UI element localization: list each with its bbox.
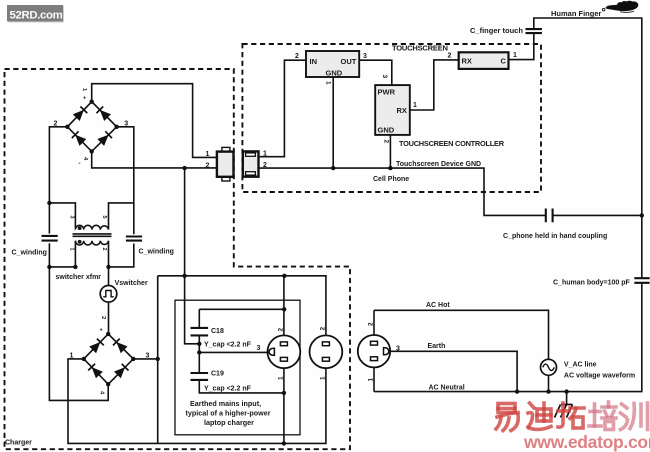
svg-text:2: 2 (100, 316, 106, 319)
svg-text:2: 2 (206, 162, 210, 169)
svg-text:switcher xfmr: switcher xfmr (56, 274, 102, 281)
svg-text:1: 1 (68, 248, 74, 251)
svg-text:+: + (100, 328, 103, 334)
svg-text:5: 5 (101, 216, 107, 219)
svg-text:C_human body=100 pF: C_human body=100 pF (553, 280, 631, 287)
svg-text:Touchscreen Device GND: Touchscreen Device GND (396, 161, 481, 168)
svg-text:-: - (113, 377, 115, 383)
svg-text:Cell Phone: Cell Phone (373, 176, 409, 183)
svg-text:GND: GND (378, 126, 395, 135)
svg-text:1: 1 (367, 378, 374, 382)
svg-text:Vswitcher: Vswitcher (115, 280, 148, 287)
svg-text:Y_cap <2.2 nF: Y_cap <2.2 nF (204, 342, 252, 349)
svg-text:IN: IN (310, 57, 318, 66)
svg-text:AC Neutral: AC Neutral (429, 385, 465, 392)
svg-text:3: 3 (396, 346, 400, 353)
svg-text:AC voltage waveform: AC voltage waveform (564, 373, 635, 380)
svg-text:1: 1 (413, 102, 417, 109)
svg-text:www.edatop.com: www.edatop.com (523, 432, 650, 452)
svg-text:2: 2 (367, 322, 374, 326)
svg-text:RX: RX (462, 57, 472, 66)
svg-text:C18: C18 (211, 328, 224, 335)
svg-text:3: 3 (124, 121, 128, 128)
svg-text:3: 3 (381, 75, 388, 79)
svg-text:C_winding: C_winding (139, 249, 174, 256)
svg-text:1: 1 (206, 151, 210, 158)
svg-text:RX: RX (397, 106, 407, 115)
svg-text:V_AC line: V_AC line (564, 362, 597, 369)
svg-text:Earthed mains input,: Earthed mains input, (190, 399, 261, 408)
svg-text:C_finger touch: C_finger touch (470, 26, 523, 35)
svg-text:Y_cap <2.2 nF: Y_cap <2.2 nF (204, 386, 252, 393)
svg-text:2: 2 (101, 248, 107, 251)
svg-text:AC Hot: AC Hot (426, 302, 450, 309)
svg-text:C_phone held in hand coupling: C_phone held in hand coupling (503, 233, 607, 240)
svg-text:1: 1 (277, 376, 284, 380)
svg-text:laptop charger: laptop charger (204, 418, 254, 427)
svg-text:C: C (501, 57, 507, 66)
svg-text:2: 2 (382, 140, 389, 144)
svg-text:1: 1 (263, 151, 267, 158)
svg-text:2: 2 (263, 162, 267, 169)
svg-text:C19: C19 (211, 371, 224, 378)
svg-text:GND: GND (326, 69, 343, 78)
svg-text:-: - (79, 161, 81, 167)
svg-text:1: 1 (513, 52, 517, 59)
svg-text:2: 2 (295, 53, 299, 60)
svg-text:Earth: Earth (428, 343, 446, 350)
svg-text:2: 2 (448, 53, 452, 60)
svg-text:52RD.com: 52RD.com (10, 9, 63, 21)
svg-text:2: 2 (54, 121, 58, 128)
svg-text:TOUCHSCREEN CONTROLLER: TOUCHSCREEN CONTROLLER (399, 139, 505, 148)
svg-text:3: 3 (146, 353, 150, 360)
svg-text:2: 2 (277, 328, 284, 332)
svg-text:1: 1 (324, 81, 331, 85)
svg-text:Charger: Charger (5, 440, 32, 447)
svg-text:3: 3 (68, 216, 74, 219)
svg-text:OUT: OUT (341, 57, 357, 66)
svg-text:2: 2 (319, 327, 326, 331)
svg-text:C_winding: C_winding (12, 250, 47, 257)
svg-text:typical of a higher-power: typical of a higher-power (186, 409, 271, 418)
svg-text:Human Finger: Human Finger (551, 9, 602, 18)
svg-text:1: 1 (70, 353, 74, 360)
svg-text:TOUCHSCREEN: TOUCHSCREEN (392, 44, 448, 53)
svg-text:3: 3 (363, 53, 367, 60)
svg-text:3: 3 (257, 345, 261, 352)
svg-text:1: 1 (319, 376, 326, 380)
svg-text:PWR: PWR (378, 88, 396, 97)
svg-text:+: + (83, 96, 86, 102)
